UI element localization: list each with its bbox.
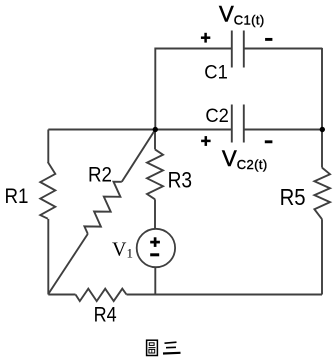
svg-text:C2: C2 (205, 106, 229, 127)
svg-text:V1: V1 (112, 239, 133, 261)
svg-text:C1: C1 (204, 63, 228, 84)
svg-text:R1: R1 (5, 185, 29, 208)
svg-text:R2: R2 (88, 163, 112, 186)
svg-text:R4: R4 (94, 303, 117, 326)
svg-text:R3: R3 (168, 168, 193, 193)
svg-text:R5: R5 (280, 184, 306, 210)
svg-text:VC1(t): VC1(t) (219, 2, 265, 28)
svg-text:VC2(t): VC2(t) (222, 146, 268, 172)
